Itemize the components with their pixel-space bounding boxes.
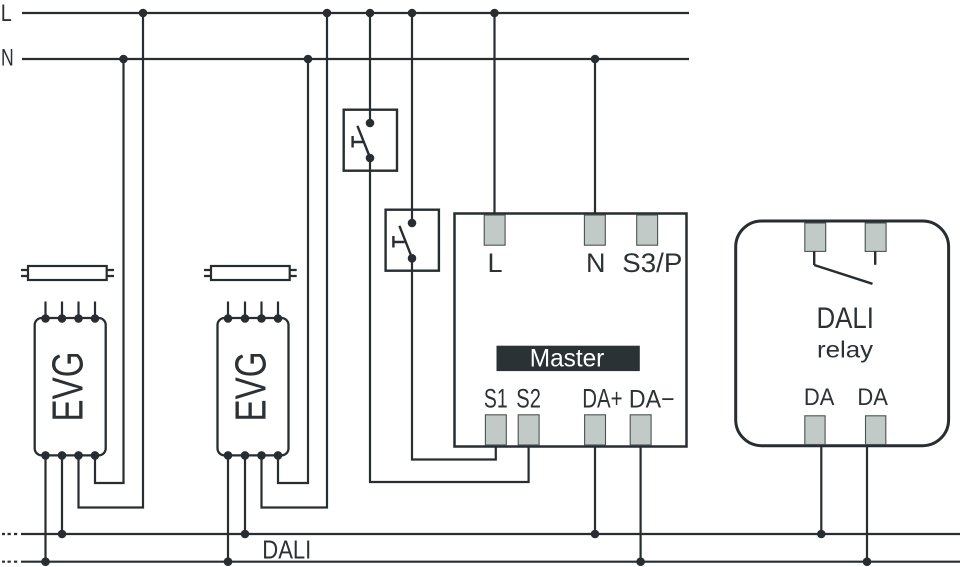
relay terminal bottom left — [805, 416, 825, 445]
junction relay / line1 — [817, 530, 826, 539]
DALI line2 dashed lead-in — [2, 561, 17, 563]
switch 2 lever — [399, 226, 412, 258]
wire EVG1 pin3 to L rail — [79, 13, 144, 508]
EVG1 top pins — [46, 302, 96, 319]
push-button switch 1 box — [344, 110, 397, 171]
switch 2 upper contact dot — [408, 219, 417, 228]
svg-text:N: N — [1, 45, 14, 72]
switch 2 lower contact dot — [408, 254, 417, 263]
svg-text:L: L — [488, 248, 503, 278]
svg-text:DALI: DALI — [262, 536, 311, 564]
junction on N rail x=595 — [591, 55, 600, 64]
junction on L rail x=143 — [139, 9, 148, 18]
relay contact lever — [814, 265, 872, 284]
wire EVG1 pin2 to DALI line1 — [61, 455, 63, 534]
EVG2 top pins — [228, 302, 278, 319]
ballast EVG2 box — [218, 318, 289, 455]
wire Master DA+ to DALI line1 — [594, 446, 596, 534]
Master terminal S3/P — [637, 215, 658, 245]
wire L rail to Master L terminal — [493, 13, 495, 215]
wire switch 1 to Master S2 — [370, 158, 529, 482]
DALI bus line1 — [21, 533, 960, 535]
EVG1 bottom pin dots — [41, 451, 99, 460]
junction on N rail x=308 — [304, 55, 313, 64]
junction EVG2 pin2 / line1 — [241, 530, 250, 539]
relay terminal top left — [805, 223, 826, 251]
DALI bus line2 — [21, 561, 960, 563]
junction DA+ / line1 — [591, 530, 600, 539]
wire EVG1 pin4 to N rail — [95, 59, 124, 483]
wire EVG2 pin4 to N rail — [278, 59, 308, 483]
wire L rail to switch S2 top — [411, 13, 413, 223]
lamp tube 2 — [204, 266, 297, 280]
Master terminal S1 — [485, 415, 506, 445]
Master terminal L — [484, 215, 505, 245]
Master terminal N — [584, 215, 605, 245]
EVG2 bottom pin dots — [224, 451, 283, 460]
EVG1 top pin dots — [41, 314, 99, 323]
relay contact left stub — [813, 251, 815, 265]
push-button switch 2 box — [386, 210, 439, 271]
wire EVG2 pin3 to L rail — [262, 13, 328, 508]
junction on L rail x=327 — [323, 9, 332, 18]
ballast EVG1 box — [35, 318, 106, 455]
svg-text:DA−: DA− — [629, 386, 675, 414]
Master terminal DA- — [630, 415, 651, 445]
switch 1 upper contact dot — [366, 119, 375, 128]
lamp tube 1 — [21, 266, 114, 280]
svg-text:S2: S2 — [516, 383, 541, 413]
wire EVG1 pin1 to DALI line2 — [44, 455, 46, 561]
DALI line1 dashed lead-in — [2, 533, 17, 535]
junction EVG2 pin1 / line2 — [224, 557, 233, 566]
wire N rail to Master N terminal — [594, 59, 596, 215]
svg-text:L: L — [1, 0, 12, 27]
switch 1 actuator — [353, 136, 364, 148]
wire relay DA right to DALI line2 — [866, 445, 868, 562]
svg-text:DA: DA — [804, 384, 835, 411]
junction on L rail x=370 — [366, 9, 375, 18]
svg-text:Master: Master — [530, 346, 605, 373]
wire relay DA left to DALI line1 — [820, 445, 822, 534]
junction EVG1 pin1 / line2 — [41, 557, 50, 566]
switch 1 lever — [357, 126, 370, 158]
switch 1 lower contact dot — [366, 154, 375, 163]
svg-text:S3/P: S3/P — [622, 248, 682, 278]
wire N rail — [22, 58, 689, 60]
svg-text:EVG: EVG — [227, 352, 275, 422]
svg-text:DALI: DALI — [817, 302, 875, 335]
relay contact right stub — [874, 251, 876, 264]
wire L rail — [22, 12, 689, 14]
switch 2 actuator — [393, 236, 404, 248]
wire EVG2 pin1 to DALI line2 — [227, 455, 229, 561]
Master terminal S2 — [518, 415, 539, 445]
relay terminal top right — [865, 223, 886, 251]
wire Master DA- to DALI line2 — [639, 446, 641, 562]
svg-text:DA: DA — [857, 384, 888, 411]
svg-text:DA+: DA+ — [582, 383, 622, 413]
junction on L rail x=494.5 — [490, 9, 499, 18]
junction EVG1 pin2 / line1 — [58, 530, 67, 539]
EVG2 top pin dots — [224, 314, 283, 323]
svg-text:S1: S1 — [484, 383, 508, 413]
DALI relay box — [736, 221, 949, 446]
wire EVG2 pin2 to DALI line1 — [244, 455, 246, 534]
junction on L rail x=412 — [408, 9, 417, 18]
wire L rail to switch S1 top — [369, 13, 371, 123]
Master unit box — [455, 214, 687, 447]
Master terminal DA+ — [585, 415, 606, 445]
Master name band — [497, 346, 640, 371]
relay terminal bottom right — [866, 416, 886, 445]
wire switch 2 to Master S1 — [412, 258, 496, 459]
junction on N rail x=123.5 — [119, 55, 128, 64]
svg-text:relay: relay — [817, 336, 873, 362]
junction relay / line2 — [863, 557, 872, 566]
svg-text:N: N — [586, 248, 606, 278]
junction DA- / line2 — [636, 557, 645, 566]
svg-text:EVG: EVG — [45, 352, 93, 422]
